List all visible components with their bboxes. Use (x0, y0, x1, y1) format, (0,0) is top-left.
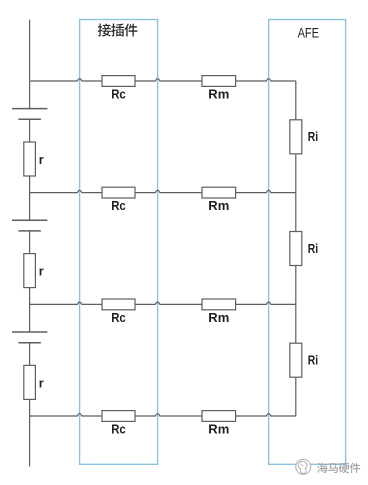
wire battery B2 to resistor r2 (29, 231, 31, 254)
wire Rm4 to AFE rail (hop over AFE border) (236, 414, 296, 416)
resistor Rc3 body (102, 299, 135, 310)
resistor Rm1 body (202, 76, 236, 87)
wire row3 rail to Rc3 (hop over connector border) (30, 302, 102, 304)
wire Ri2 to row3 (295, 266, 297, 305)
wire battery B1 to resistor r1 (29, 119, 31, 142)
wire node row1 to battery B1 (29, 81, 31, 109)
wire row2 rail to Rc2 (hop over connector border) (30, 190, 102, 192)
AFE block box (269, 20, 346, 465)
wire row3 down to Ri3 (295, 304, 297, 343)
wire row1 down to Ri1 (295, 81, 297, 120)
wire Rc1 to Rm1 (hop over connector border) (135, 79, 202, 81)
wire Rm1 to AFE rail (hop over AFE border) (236, 79, 296, 81)
svg-text:Rc: Rc (111, 311, 126, 325)
resistor Rc2 body (102, 187, 135, 198)
resistor r2 body (24, 254, 36, 288)
wire Ri1 to row2 (295, 154, 297, 193)
svg-text:Rc: Rc (111, 88, 126, 102)
wire Rm3 to AFE rail (hop over AFE border) (236, 302, 296, 304)
wire row1 rail to Rc1 (hop over connector border) (30, 79, 102, 81)
resistor Rc4 body (102, 411, 135, 422)
wire node row2 to battery B2 (29, 193, 31, 221)
svg-text:Rm: Rm (208, 423, 229, 437)
resistor r3 body (24, 365, 36, 399)
watermark text 海马硬件 (317, 463, 360, 473)
svg-text:Ri: Ri (308, 354, 318, 368)
battery B3 plates (12, 332, 47, 343)
resistor Rc1 body (102, 76, 135, 87)
wire Rc3 to Rm3 (hop over connector border) (135, 302, 202, 304)
wire Rm2 to AFE rail (hop over AFE border) (236, 190, 296, 192)
wire resistor r1 to row2 (29, 176, 31, 193)
resistor Ri2 body (290, 232, 302, 266)
connector block 接插件 box (80, 20, 158, 465)
wire battery B3 to resistor r3 (29, 343, 31, 366)
svg-text:r: r (39, 153, 44, 167)
svg-text:Ri: Ri (308, 130, 318, 144)
battery B2 plates (12, 220, 47, 231)
wire node row3 to battery B3 (29, 304, 31, 332)
svg-text:Rm: Rm (208, 311, 229, 325)
svg-text:Rm: Rm (208, 88, 229, 102)
wire Rc4 to Rm4 (hop over connector border) (135, 414, 202, 416)
svg-text:AFE: AFE (298, 25, 319, 40)
svg-text:Rc: Rc (111, 423, 126, 437)
svg-text:Rc: Rc (111, 199, 126, 213)
wire row2 down to Ri2 (295, 193, 297, 232)
svg-text:Ri: Ri (308, 242, 318, 256)
wire Rc2 to Rm2 (hop over connector border) (135, 190, 202, 192)
wire row4 rail to Rc4 (hop over connector border) (30, 414, 102, 416)
resistor Rm3 body (202, 299, 236, 310)
wire left rail top (29, 20, 31, 81)
wire resistor r2 to row3 (29, 288, 31, 305)
resistor r1 body (24, 142, 36, 176)
resistor Ri1 body (290, 120, 302, 154)
wire Ri3 to row4 (295, 377, 297, 416)
watermark logo circle (seahorse) (296, 459, 311, 474)
svg-text:Rm: Rm (208, 199, 229, 213)
label 接插件 (connector title) (98, 24, 138, 37)
svg-text:r: r (39, 265, 44, 279)
resistor Ri3 body (290, 343, 302, 377)
resistor Rm2 body (202, 187, 236, 198)
wire resistor r3 to row4 (29, 399, 31, 416)
svg-text:r: r (39, 376, 44, 390)
wire left rail bottom (29, 416, 31, 467)
battery B1 plates (12, 109, 47, 120)
resistor Rm4 body (202, 411, 236, 422)
